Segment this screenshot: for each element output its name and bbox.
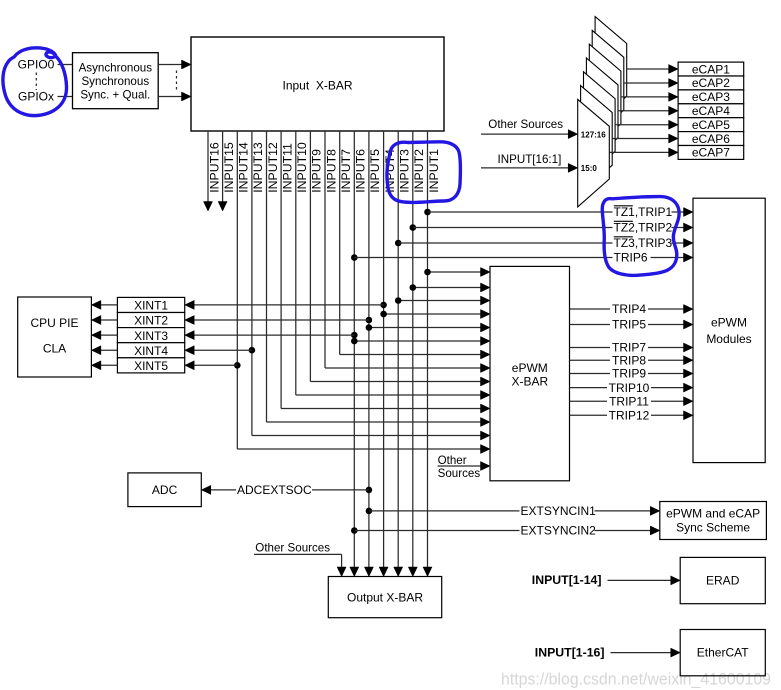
svg-text:GPIO0: GPIO0: [18, 58, 55, 72]
svg-text:INPUT7: INPUT7: [339, 149, 353, 193]
wire INPUT1 vertical: [427, 131, 429, 568]
wire Other Sources underline: [254, 553, 342, 555]
wire INPUT[16:1] to eCAP mux: [481, 167, 569, 169]
wire GPIO0 to sync block: [58, 64, 73, 66]
wire Other Sources to ePWM X-BAR: [438, 465, 482, 467]
svg-text:TRIP6: TRIP6: [614, 251, 648, 265]
block XINT3: [117, 328, 184, 343]
svg-text:INPUT3: INPUT3: [398, 149, 412, 193]
svg-text:INPUT2: INPUT2: [412, 149, 426, 193]
overbar on TZ3: [614, 236, 633, 238]
block XINT5: [117, 358, 184, 373]
block ePWM and eCAP Sync Scheme: [660, 502, 767, 540]
svg-text:Sync Scheme: Sync Scheme: [676, 521, 750, 535]
svg-text:eCAP2: eCAP2: [692, 76, 730, 90]
block Input X-BAR: [191, 37, 444, 131]
junction INPUT4/ePWM X-BAR row: [380, 311, 387, 318]
svg-text:TRIP5: TRIP5: [612, 318, 646, 332]
wire INPUT9 vertical: [309, 131, 311, 382]
svg-text:ePWM: ePWM: [512, 361, 548, 375]
wire INPUT13 vertical: [251, 131, 253, 436]
wire INPUT10 to ePWM X-BAR: [296, 394, 482, 396]
block EtherCAT: [680, 630, 765, 676]
svg-text:TZ2,TRIP2: TZ2,TRIP2: [614, 221, 673, 235]
block ADC: [128, 473, 201, 507]
svg-text:eCAP5: eCAP5: [692, 118, 730, 132]
wire INPUT2 vertical: [412, 131, 414, 568]
block XINT4: [117, 343, 184, 358]
wire mux to eCAP1: [627, 68, 670, 70]
block eCAP7: [678, 146, 744, 160]
junction INPUT6/EXTSYNCIN2: [351, 527, 358, 534]
wire INPUT10 vertical: [295, 131, 297, 395]
svg-text:INPUT15: INPUT15: [222, 142, 236, 193]
svg-text:XINT5: XINT5: [134, 359, 168, 373]
svg-text:INPUT[16:1]: INPUT[16:1]: [498, 153, 562, 166]
wire INPUT5 to XINT2: [193, 319, 369, 321]
junction INPUT4/XINT1: [380, 302, 387, 309]
svg-text:XINT2: XINT2: [134, 314, 168, 328]
svg-text:TZ1,TRIP1: TZ1,TRIP1: [614, 205, 673, 219]
svg-text:XINT1: XINT1: [134, 299, 168, 313]
junction INPUT2/TZ2,TRIP2: [410, 224, 417, 231]
block Output X-BAR: [328, 577, 441, 618]
overbar on TZ2: [614, 220, 633, 222]
junction INPUT5/XINT2: [366, 317, 373, 324]
wire INPUT8 vertical: [324, 131, 326, 368]
svg-text:Input X-BAR: Input X-BAR: [282, 79, 352, 93]
wire INPUT5 branch to ePWM X-BAR: [369, 327, 482, 329]
svg-text:TRIP8: TRIP8: [612, 353, 646, 367]
svg-text:INPUT5: INPUT5: [368, 149, 382, 193]
wire TRIP7: [570, 347, 685, 349]
svg-text:eCAP3: eCAP3: [692, 90, 730, 104]
svg-text:Modules: Modules: [706, 332, 751, 346]
wire Other Sources down to Output X-BAR: [341, 554, 343, 568]
svg-text:eCAP4: eCAP4: [692, 104, 730, 118]
wire INPUT4 to XINT1: [193, 304, 383, 306]
junction INPUT2/ePWM X-BAR row: [410, 284, 417, 291]
annotation blue loop around INPUT3/2/1 labels: [387, 142, 461, 203]
svg-text:Other Sources: Other Sources: [488, 118, 563, 131]
svg-text:TRIP12: TRIP12: [609, 409, 650, 423]
wire XINT3 to CPU PIE: [100, 334, 118, 336]
wire INPUT15 dangling: [222, 131, 224, 203]
svg-text:XINT4: XINT4: [134, 344, 168, 358]
wire INPUT2 branch to ePWM X-BAR: [413, 287, 482, 289]
svg-text:15:0: 15:0: [581, 164, 598, 173]
wire INPUT8 to ePWM X-BAR: [325, 367, 482, 369]
wire INPUT7 to ePWM X-BAR: [340, 354, 482, 356]
wire TRIP6 to ePWM Modules: [354, 257, 684, 259]
annotation blue loop around TZ/TRIP labels: [602, 197, 679, 276]
wire sync block to Input X-BAR (bottom): [158, 96, 182, 98]
wire INPUT4 branch to ePWM X-BAR: [384, 313, 482, 315]
wire mux to eCAP5: [615, 124, 670, 126]
eCAP mux shape 5: [584, 72, 616, 180]
junction INPUT3/ePWM X-BAR row: [395, 297, 402, 304]
svg-text:Other Sources: Other Sources: [255, 541, 330, 554]
wire mux to eCAP2: [624, 82, 670, 84]
wire INPUT3 branch to ePWM X-BAR: [398, 300, 481, 302]
block eCAP3: [678, 90, 744, 104]
wire INPUT6 branch to ePWM X-BAR: [354, 340, 481, 342]
eCAP mux shape 1: [595, 17, 627, 125]
svg-text:INPUT[1-14]: INPUT[1-14]: [532, 573, 602, 587]
wire INPUT6 to XINT3: [193, 334, 354, 336]
svg-text:Asynchronous: Asynchronous: [79, 62, 153, 75]
svg-text:eCAP6: eCAP6: [692, 132, 730, 146]
svg-text:CLA: CLA: [43, 342, 66, 356]
block eCAP4: [678, 104, 744, 118]
svg-text:INPUT12: INPUT12: [266, 142, 280, 193]
wire mux to eCAP6: [612, 138, 669, 140]
eCAP mux shape 3: [589, 44, 621, 152]
svg-text:Sync. + Qual.: Sync. + Qual.: [80, 88, 150, 101]
svg-text:TRIP10: TRIP10: [609, 381, 650, 395]
wire GPIOx to sync block: [58, 96, 73, 98]
block eCAP1: [678, 62, 744, 76]
wire INPUT12 vertical: [266, 131, 268, 422]
dotted ellipsis between GPIO labels: [35, 73, 37, 91]
block XINT2: [117, 313, 184, 328]
block eCAP2: [678, 76, 744, 90]
wire INPUT[1-16] to EtherCAT: [611, 652, 672, 654]
svg-text:Synchronous: Synchronous: [81, 75, 149, 88]
svg-text:INPUT14: INPUT14: [237, 142, 251, 193]
wire sync block to Input X-BAR (top): [158, 64, 182, 66]
block ERAD: [680, 557, 765, 603]
svg-text:Other: Other: [438, 454, 467, 467]
wire EXTSYNCIN2: [354, 530, 651, 532]
wire TRIP10: [570, 387, 685, 389]
wire INPUT9 to ePWM X-BAR: [310, 381, 481, 383]
wire INPUT11 vertical: [280, 131, 282, 409]
wire Other Sources to eCAP mux: [481, 133, 569, 135]
svg-text:CPU PIE: CPU PIE: [30, 316, 78, 330]
svg-text:ePWM: ePWM: [711, 316, 747, 330]
wire INPUT1 branch to ePWM X-BAR: [428, 271, 482, 273]
svg-text:INPUT13: INPUT13: [251, 142, 265, 193]
svg-text:ADCEXTSOC: ADCEXTSOC: [237, 483, 312, 497]
overbar on TZ1: [614, 205, 633, 207]
svg-text:TRIP4: TRIP4: [612, 302, 646, 316]
svg-text:ADC: ADC: [152, 483, 178, 497]
svg-text:EtherCAT: EtherCAT: [697, 646, 749, 660]
svg-text:INPUT9: INPUT9: [310, 149, 324, 193]
wire TZ3,TRIP3 to ePWM Modules: [398, 242, 684, 244]
wire INPUT4 vertical: [383, 131, 385, 568]
wire TZ1,TRIP1 to ePWM Modules: [428, 211, 685, 213]
svg-text:TZ3,TRIP3: TZ3,TRIP3: [614, 236, 673, 250]
eCAP mux shape 2: [592, 30, 624, 137]
svg-text:INPUT16: INPUT16: [207, 142, 221, 193]
svg-text:eCAP1: eCAP1: [692, 62, 730, 76]
svg-text:ePWM and eCAP: ePWM and eCAP: [666, 507, 760, 521]
svg-text:TRIP9: TRIP9: [612, 367, 646, 381]
wire INPUT7 vertical: [339, 131, 341, 355]
junction INPUT14/XINT5: [234, 362, 241, 369]
junction INPUT6/ePWM X-BAR row: [351, 338, 358, 345]
svg-text:INPUT8: INPUT8: [324, 149, 338, 193]
wire INPUT13 to ePWM X-BAR: [252, 435, 482, 437]
block CPU PIE CLA: [18, 297, 92, 377]
junction INPUT1/TZ1,TRIP1: [424, 209, 431, 216]
svg-text:https://blog.csdn.net/weixin_4: https://blog.csdn.net/weixin_41600109: [501, 671, 771, 689]
wire TRIP11: [570, 400, 685, 402]
wire XINT5 to CPU PIE: [100, 364, 118, 366]
wire TZ2,TRIP2 to ePWM Modules: [413, 227, 685, 229]
dotted ellipsis between wires: [176, 71, 178, 91]
block ePWM Modules: [693, 198, 765, 462]
svg-text:eCAP7: eCAP7: [692, 146, 730, 160]
svg-text:GPIOx: GPIOx: [18, 90, 54, 104]
block XINT1: [117, 297, 184, 312]
junction INPUT6/XINT3: [351, 332, 358, 339]
svg-text:TRIP11: TRIP11: [609, 394, 649, 408]
wire INPUT[1-14] to ERAD: [608, 579, 672, 581]
block ePWM X-BAR: [490, 266, 570, 480]
wire TRIP8: [570, 359, 685, 361]
wire INPUT11 to ePWM X-BAR: [281, 408, 481, 410]
wire INPUT16 dangling: [207, 131, 209, 203]
wire EXTSYNCIN1: [369, 510, 651, 512]
junction INPUT1/ePWM X-BAR row: [424, 269, 431, 276]
wire XINT2 to CPU PIE: [100, 319, 118, 321]
svg-text:Output X-BAR: Output X-BAR: [347, 591, 423, 605]
junction INPUT5/ADCEXTSOC: [366, 487, 373, 494]
block eCAP5: [678, 118, 744, 132]
svg-text:INPUT1: INPUT1: [427, 149, 441, 193]
wire TRIP12: [570, 414, 685, 416]
wire INPUT14 to XINT5: [193, 364, 237, 366]
wire INPUT6 vertical: [353, 131, 355, 568]
wire INPUT13 to XINT4: [193, 349, 252, 351]
junction INPUT5/ePWM X-BAR row: [366, 324, 373, 331]
svg-text:127:16: 127:16: [581, 131, 606, 140]
svg-text:INPUT11: INPUT11: [280, 143, 294, 193]
svg-text:INPUT6: INPUT6: [354, 149, 368, 193]
eCAP mux shape 4: [586, 58, 618, 166]
wire XINT4 to CPU PIE: [100, 349, 118, 351]
wire mux to eCAP4: [618, 110, 670, 112]
junction INPUT5/EXTSYNCIN1: [366, 508, 373, 515]
eCAP mux shape 6: [581, 86, 613, 194]
svg-text:INPUT[1-16]: INPUT[1-16]: [535, 645, 605, 659]
svg-text:EXTSYNCIN2: EXTSYNCIN2: [521, 524, 597, 538]
wire TRIP5: [570, 324, 685, 326]
eCAP mux shape 7: [578, 99, 610, 206]
block input qualification: [73, 53, 159, 109]
wire mux to eCAP3: [621, 96, 670, 98]
svg-text:EXTSYNCIN1: EXTSYNCIN1: [521, 504, 597, 518]
svg-text:X-BAR: X-BAR: [511, 375, 548, 389]
wire INPUT14 vertical: [236, 131, 238, 449]
junction INPUT6/TRIP6: [351, 254, 358, 261]
junction INPUT3/TZ3,TRIP3: [395, 240, 402, 247]
wire INPUT12 to ePWM X-BAR: [267, 421, 482, 423]
wire TRIP9: [570, 373, 685, 375]
block eCAP6: [678, 132, 744, 146]
wire mux to eCAP7: [609, 151, 669, 153]
wire TRIP4: [570, 308, 685, 310]
wire XINT1 to CPU PIE: [100, 304, 118, 306]
wire INPUT3 vertical: [397, 131, 399, 568]
wire INPUT14 to ePWM X-BAR: [237, 448, 481, 450]
svg-text:XINT3: XINT3: [134, 329, 168, 343]
svg-text:ERAD: ERAD: [706, 574, 740, 588]
annotation blue loop around GPIO labels: [3, 48, 67, 116]
junction INPUT13/XINT4: [249, 347, 256, 354]
wire ADCEXTSOC: [210, 489, 369, 491]
svg-text:INPUT10: INPUT10: [295, 142, 309, 193]
wire INPUT5 vertical: [368, 131, 370, 568]
svg-text:Sources: Sources: [438, 467, 481, 480]
